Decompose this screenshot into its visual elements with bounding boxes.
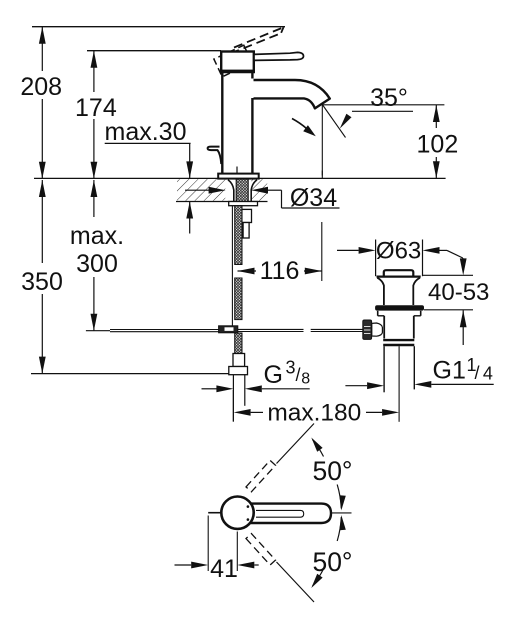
threaded shank: [228, 180, 234, 202]
dim 40-53: [447, 250, 463, 258]
svg-text:116: 116: [260, 257, 300, 285]
supply pipe: [232, 375, 234, 422]
svg-text:40-53: 40-53: [428, 279, 489, 306]
top view centerline: [332, 512, 352, 514]
drain collar below seal: [377, 311, 379, 316]
water flow arrow: [292, 119, 310, 132]
top view spout stub: [208, 512, 221, 514]
drain body: [383, 316, 385, 339]
svg-text:Ø34: Ø34: [290, 184, 337, 212]
supply hose upper: [235, 206, 242, 265]
dim 102: [435, 105, 437, 128]
svg-text:35°: 35°: [370, 84, 408, 112]
faucet lever: [254, 52, 304, 60]
faucet spout: [254, 80, 330, 108]
faucet body: [221, 71, 223, 174]
svg-text:/: /: [296, 365, 301, 385]
svg-text:50°: 50°: [312, 547, 352, 577]
pop-up rod knob: [208, 147, 222, 164]
svg-text:50°: 50°: [312, 456, 352, 486]
drain centerline: [398, 346, 400, 422]
svg-text:8: 8: [301, 371, 310, 388]
drain thread rings: [383, 339, 414, 341]
drain flange (O63): [377, 276, 421, 278]
spout outlet 35deg reference: [322, 105, 345, 138]
svg-text:3: 3: [286, 358, 296, 378]
dim max.300: [93, 180, 95, 217]
handle swing lower dashed: [277, 562, 315, 602]
top view body circle: [221, 497, 253, 529]
hose end fitting: [233, 354, 245, 367]
svg-text:300: 300: [76, 250, 118, 278]
svg-text:G1: G1: [433, 357, 466, 385]
top view lever slot: [256, 510, 304, 517]
counter top line: [34, 177, 446, 179]
supply hose lower: [235, 333, 242, 354]
knurled side knob: [363, 320, 372, 339]
svg-text:350: 350: [21, 268, 63, 296]
faucet cartridge housing: [221, 52, 254, 71]
handle swing upper dashed: [277, 424, 315, 464]
counter hatch right: [251, 179, 267, 201]
dim O34 hole: [185, 189, 210, 191]
dim 41: [207, 516, 209, 572]
counter bottom line: [176, 201, 268, 203]
drain dome cap: [384, 270, 414, 276]
pull rod: [231, 206, 233, 326]
extension line at spout axis: [321, 222, 323, 281]
dim max.180: [232, 390, 234, 422]
svg-text:max.: max.: [70, 222, 124, 250]
cartridge housing tilted (dashed): [214, 45, 252, 77]
top reference line (max lever height): [32, 26, 285, 28]
arc 50 upper: [313, 440, 324, 457]
baseline at 350: [31, 373, 229, 375]
svg-text:G: G: [264, 361, 283, 389]
dim 350: [41, 180, 43, 263]
spout outlet vertical reference: [321, 105, 323, 179]
dim 116: [238, 270, 257, 272]
horizontal pop-up rod right: [238, 328, 304, 330]
dim 174: [93, 51, 95, 92]
svg-text:4: 4: [483, 364, 493, 384]
counter hatch left: [177, 179, 225, 201]
svg-text:max.180: max.180: [267, 400, 361, 427]
horizontal reference at spout outlet: [322, 104, 444, 106]
drain seal ring: [375, 305, 424, 310]
reference line at 174 body height: [87, 50, 221, 52]
dim O63: [375, 240, 377, 277]
connection nut: [229, 367, 248, 375]
svg-text:41: 41: [210, 555, 238, 583]
svg-text:Ø63: Ø63: [376, 238, 421, 265]
svg-text:max.30: max.30: [105, 118, 187, 146]
top view lever: [250, 504, 331, 523]
drain tail pipe: [383, 346, 385, 392]
mounting stud: [243, 223, 249, 239]
faucet lever raised position (dashed): [234, 27, 284, 47]
svg-text:/: /: [475, 363, 480, 383]
arc 50 lower: [337, 517, 341, 541]
mounting nut: [242, 209, 252, 222]
pop-up rod tee: [219, 326, 238, 333]
dim 208: [41, 27, 43, 71]
shank washer: [229, 202, 258, 206]
svg-text:102: 102: [417, 130, 459, 158]
supply hose middle: [235, 278, 242, 320]
faucet base flange: [218, 174, 259, 179]
horizontal pop-up rod left / max300 reference: [86, 330, 110, 332]
svg-text:208: 208: [20, 73, 62, 101]
